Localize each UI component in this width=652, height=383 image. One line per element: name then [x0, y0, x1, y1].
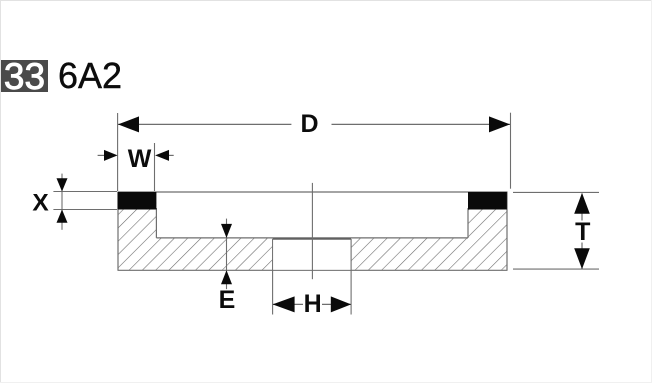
D extension line right: [510, 113, 512, 189]
T extension line top: [513, 191, 599, 193]
X arrow top (points down): [57, 178, 68, 191]
wheel top surface line: [118, 191, 508, 193]
hatched body right L: [351, 192, 507, 270]
svg-text:W: W: [128, 145, 152, 173]
wheel bottom line: [118, 269, 508, 271]
E dimension shaft: [226, 219, 228, 290]
D arrow left: [118, 116, 139, 132]
T dimension shaft lower: [581, 243, 583, 270]
E arrow top (points down): [221, 224, 232, 238]
svg-text:X: X: [32, 189, 49, 216]
svg-text:33: 33: [4, 56, 45, 97]
hatched body left L: [118, 192, 273, 270]
T arrow top (points up): [574, 193, 590, 214]
abrasive segment right (black): [468, 192, 507, 210]
W dimension left tail: [98, 154, 104, 156]
W extension line right: [154, 143, 156, 191]
wheel right edge: [506, 192, 508, 270]
H arrow left (points left): [273, 296, 295, 312]
X dimension shaft: [61, 174, 63, 230]
hole right edge + H extension: [350, 239, 352, 315]
T dimension shaft upper: [581, 194, 583, 221]
X arrow bottom (points up): [57, 210, 68, 223]
X extension line top: [53, 191, 117, 193]
X extension line bottom: [53, 209, 117, 211]
svg-text:6A2: 6A2: [58, 55, 122, 96]
D arrow right: [489, 116, 510, 132]
D dimension line: [118, 123, 291, 125]
hole left edge + H extension: [272, 239, 274, 315]
svg-text:H: H: [304, 290, 322, 318]
H dimension line left: [273, 303, 303, 305]
W arrow left (points right): [104, 150, 118, 161]
left recess step edge: [155, 208, 157, 238]
T extension line bottom: [513, 268, 599, 270]
H arrow right (points right): [331, 296, 351, 312]
abrasive segment left (black): [118, 192, 157, 210]
svg-text:E: E: [219, 286, 236, 314]
D extension line left: [117, 113, 119, 191]
svg-text:T: T: [575, 218, 590, 246]
svg-text:D: D: [300, 110, 318, 138]
wheel left edge: [117, 192, 119, 270]
recess floor line: [156, 237, 468, 239]
H dimension line right: [322, 303, 351, 305]
hole top edge (thicker): [273, 238, 352, 240]
W dimension right tail: [169, 154, 174, 156]
right recess step edge: [467, 208, 469, 238]
centerline: [311, 183, 313, 279]
W arrow right (points left): [155, 150, 169, 161]
section number box 33: [1, 60, 48, 92]
hole interior white: [273, 240, 350, 270]
E arrow bottom (points up): [221, 270, 232, 284]
T arrow bottom (points down): [574, 248, 590, 269]
